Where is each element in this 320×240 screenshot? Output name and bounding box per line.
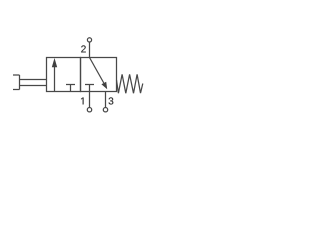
flow path 2-3 diagonal arrow (right square): [90, 58, 108, 90]
port 2 circle: [87, 38, 91, 42]
plunger top tab: [13, 74, 20, 76]
plunger end plate: [19, 75, 21, 90]
port 3 circle: [103, 108, 107, 112]
spring (return, right side): [117, 74, 143, 93]
label port 2: [81, 45, 86, 52]
valve body left square: [47, 58, 81, 92]
plunger shaft: [20, 80, 47, 86]
plunger bottom tab: [13, 89, 20, 91]
flow arrow (left position, 1-2 pass): [52, 58, 57, 92]
port 2 stem: [89, 42, 91, 58]
blocked port T (right square, port 1): [85, 85, 94, 92]
port 1 circle: [87, 108, 91, 112]
label port 3: [109, 97, 114, 104]
port 3 stem: [105, 92, 107, 108]
blocked port T (left square): [66, 85, 75, 92]
port 1 stem: [89, 92, 91, 108]
label port 1: [81, 98, 83, 105]
valve body right square: [81, 58, 117, 92]
